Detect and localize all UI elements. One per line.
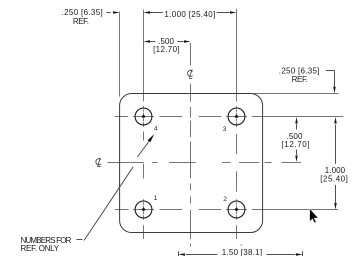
svg-text:REF.: REF. (73, 17, 89, 26)
svg-text:2: 2 (223, 196, 227, 203)
svg-text:3: 3 (223, 126, 227, 133)
svg-text:[12.70]: [12.70] (281, 140, 309, 149)
svg-text:1: 1 (154, 195, 158, 202)
svg-text:1.000 [25.40]: 1.000 [25.40] (164, 10, 215, 19)
svg-text:[25.40]: [25.40] (320, 175, 348, 184)
svg-text:1.50 [38.1]: 1.50 [38.1] (222, 248, 262, 256)
svg-text:4: 4 (154, 125, 158, 132)
svg-text:1.000: 1.000 (325, 166, 346, 175)
svg-text:REF.: REF. (292, 75, 308, 84)
svg-text:REF. ONLY: REF. ONLY (21, 244, 60, 253)
svg-text:[12.70]: [12.70] (153, 45, 180, 54)
svg-text:.250 [6.35]: .250 [6.35] (62, 8, 103, 17)
